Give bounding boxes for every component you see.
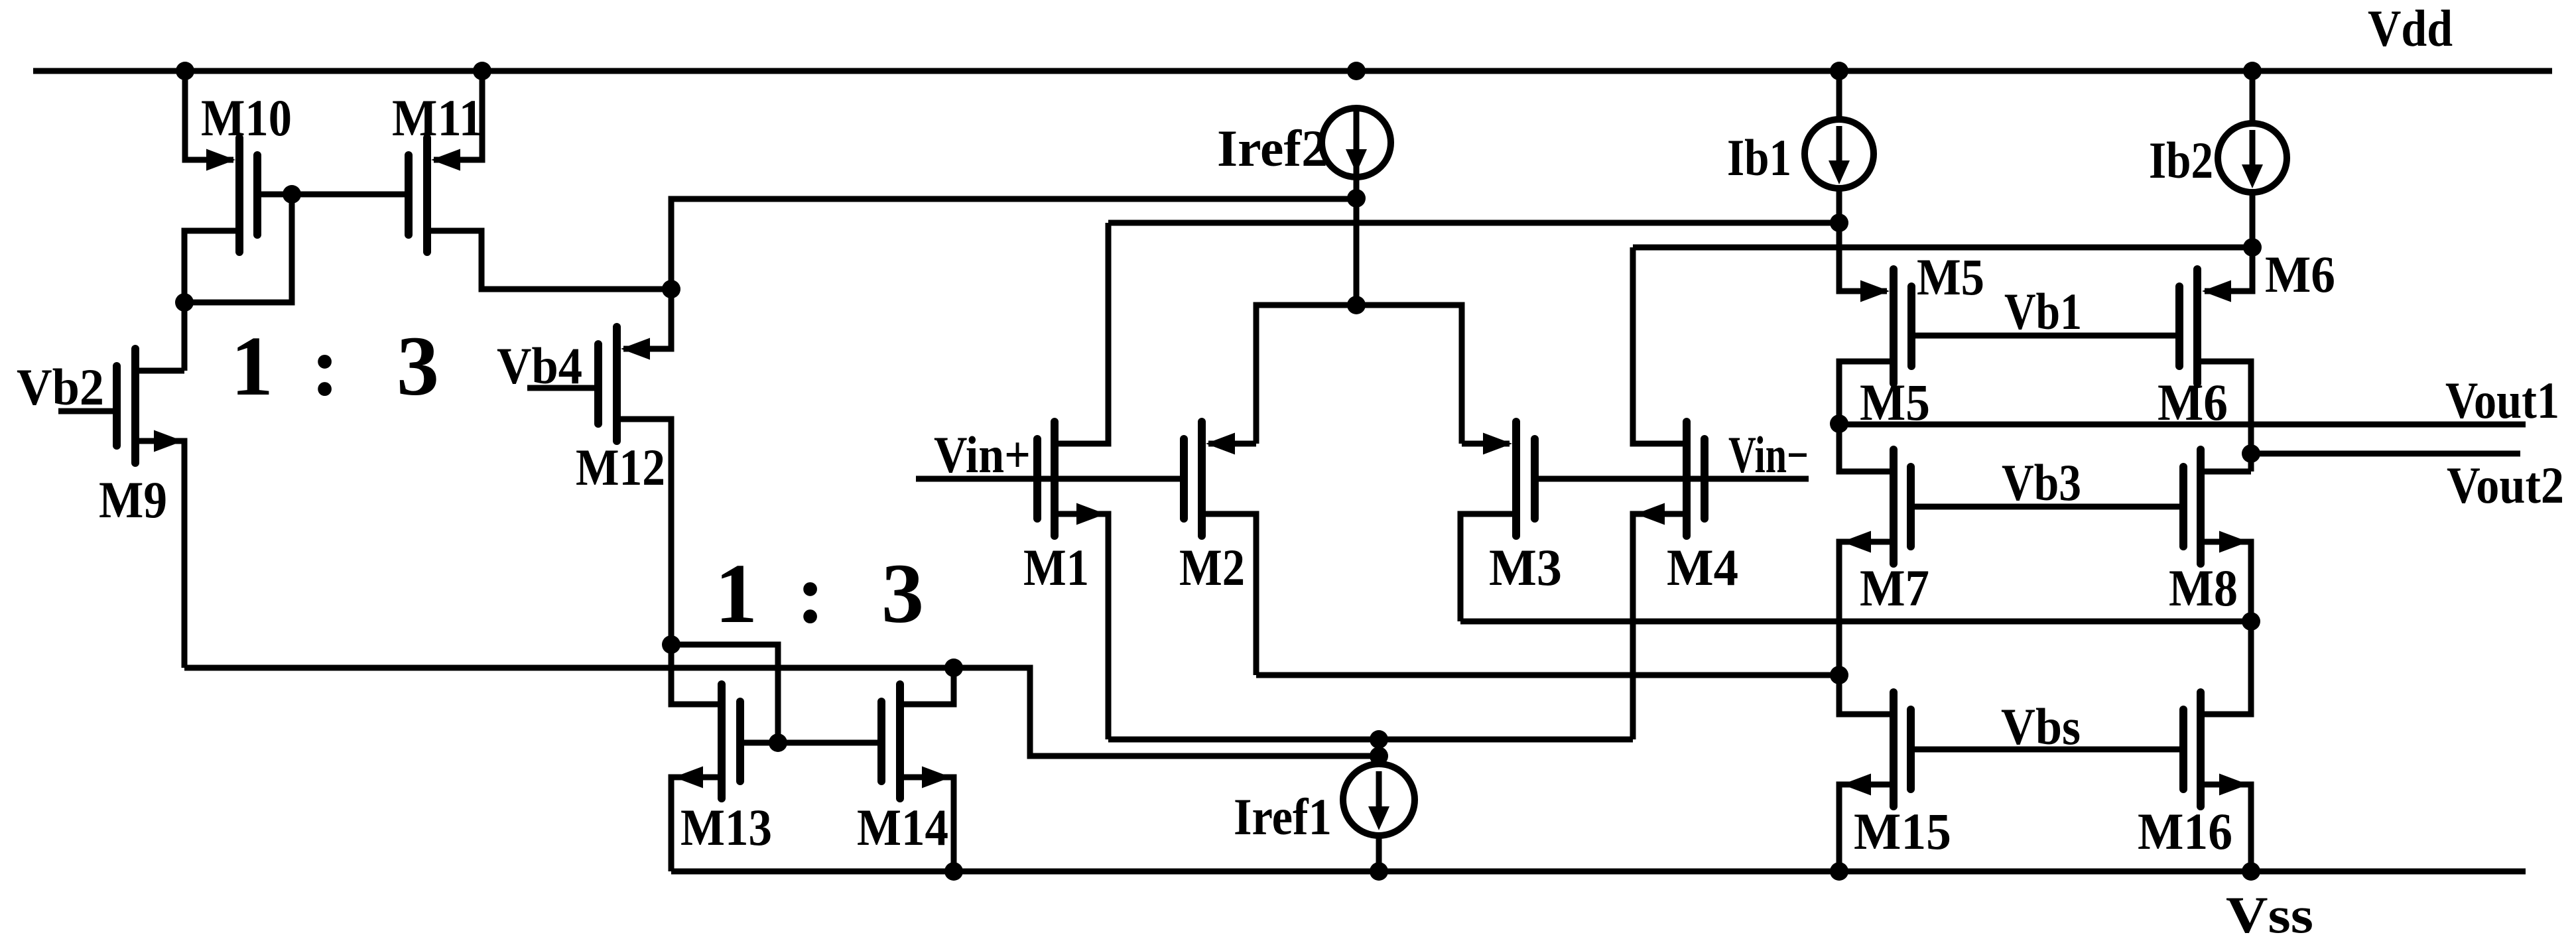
junction Vdd-M10: [176, 62, 194, 80]
svg-text:Vb3: Vb3: [2002, 454, 2081, 511]
wire M4 drain to Ib2 node: [1633, 245, 2252, 251]
wire Ib1 bottom stub: [1836, 187, 1842, 223]
wire tail to Iref2: [1354, 198, 1360, 305]
svg-text:M7: M7: [1860, 559, 1929, 617]
svg-text:M3: M3: [1489, 538, 1562, 596]
svg-text:M6: M6: [2265, 245, 2335, 303]
junction M15 source on Vss: [1830, 862, 1848, 881]
transistor M2 (input PMOS Vin+): [1184, 422, 1256, 675]
junction M2 drain / M7 source / M15 drain: [1830, 666, 1848, 684]
transistor M7 (NMOS cascode): [1839, 424, 1911, 675]
transistor M15 (NMOS current sink): [1839, 675, 1911, 871]
wire M2 source to tail: [1256, 305, 1356, 444]
transistor M14 (NMOS mirror): [881, 668, 954, 871]
transistor M5 (PMOS cascode): [1839, 223, 1911, 424]
junction Vdd-Ib1: [1830, 62, 1848, 80]
transistor M13 (NMOS diode): [671, 684, 881, 871]
svg-text:M13: M13: [680, 798, 772, 856]
svg-text:M4: M4: [1667, 538, 1738, 596]
svg-text:Ib2: Ib2: [2149, 131, 2213, 189]
transistor M3 (input PMOS Vin-): [1460, 422, 1535, 621]
junction M14 drain / M9 wire: [944, 659, 963, 677]
junction M11 drain / M12 source: [662, 280, 680, 298]
junction tail / Iref1: [1370, 730, 1388, 749]
wire M10 drain to M9 drain: [182, 302, 188, 371]
wire Ib1 top stub: [1836, 71, 1842, 121]
svg-text:Vout1: Vout1: [2445, 371, 2559, 429]
svg-text:M8: M8: [2169, 559, 2238, 617]
junction M12 drain / M13 drain node: [662, 635, 680, 654]
wire M9 drain bus to M14 node: [184, 665, 954, 671]
svg-text:M10: M10: [201, 89, 292, 147]
wire Ib2 bottom stub: [2250, 191, 2256, 247]
transistor M1 (input NMOS Vin+): [1037, 223, 1108, 739]
transistor M10 (PMOS): [184, 71, 292, 302]
wire M3 drain bus: [1460, 619, 2251, 625]
svg-text:Vb4: Vb4: [497, 337, 582, 395]
svg-text:M1: M1: [1023, 538, 1089, 596]
current source Ib2: [2218, 123, 2287, 192]
label ratio 1 : 3 (bottom mirror): [715, 546, 924, 641]
svg-text:Iref2: Iref2: [1217, 119, 1328, 177]
wire M1/M4 source tail: [1108, 737, 1633, 743]
svg-text:Vbs: Vbs: [2001, 698, 2081, 755]
svg-text:M12: M12: [576, 438, 665, 496]
junction M10 drain node: [175, 293, 194, 312]
wire Vb1 gate line: [1915, 333, 2175, 339]
wire M3 source to tail: [1356, 305, 1462, 444]
wire M14 node to Iref1 top: [954, 668, 1379, 756]
junction M16 source on Vss: [2242, 862, 2260, 881]
junction Vdd-Ib2: [2243, 62, 2262, 80]
wire Vout1 output: [1839, 422, 2526, 428]
wire Vdd rail: [33, 68, 2552, 74]
junction M3 drain / M8 source / M16 drain: [2242, 612, 2260, 631]
label ratio 1 : 3 (top mirror): [231, 319, 439, 413]
svg-text:M11: M11: [392, 89, 483, 147]
junction mirror wire / Iref1: [1370, 747, 1388, 765]
svg-text:M2: M2: [1179, 538, 1245, 596]
junction Vout1 node: [1830, 414, 1848, 433]
junction Iref2 output / M12 bias wire: [1347, 189, 1366, 208]
wire Vin- input: [1535, 476, 1809, 482]
transistor M16 (NMOS current sink): [2183, 621, 2251, 871]
svg-text::: :: [311, 319, 340, 413]
svg-text:Iref1: Iref1: [1234, 788, 1332, 846]
transistor M12 (PMOS cascode): [527, 289, 671, 645]
svg-text:1: 1: [715, 546, 757, 641]
transistor M4 (input NMOS Vin-): [1633, 247, 1705, 739]
svg-text:Vb1: Vb1: [2004, 282, 2082, 340]
transistor M8 (NMOS cascode): [2183, 450, 2251, 621]
wire Ib2 top stub: [2250, 71, 2256, 125]
svg-text:Vb2: Vb2: [17, 358, 104, 416]
svg-text:3: 3: [881, 546, 924, 641]
svg-text::: :: [797, 546, 825, 641]
current source Iref1: [1343, 764, 1415, 836]
wire Vout2 output: [2251, 451, 2520, 457]
junction Vout2 node: [2242, 444, 2260, 463]
svg-text:Vss: Vss: [2226, 886, 2313, 941]
junction M10/M11 gates: [283, 185, 301, 204]
wire M12 node to Iref2 output: [671, 199, 1356, 289]
wire Vb3 gate line: [1915, 504, 2179, 510]
svg-text:M5: M5: [1917, 248, 1984, 306]
wire Vss rail: [671, 869, 2526, 875]
svg-text:Vin−: Vin−: [1728, 426, 1809, 483]
svg-text:Vout2: Vout2: [2447, 456, 2564, 514]
svg-text:Ib1: Ib1: [1727, 129, 1791, 186]
junction Ib2 / M4 drain / M6 source: [2243, 238, 2262, 257]
junction Ib1 / M1 drain / M5 source: [1830, 214, 1848, 232]
svg-text:M16: M16: [2138, 802, 2232, 860]
junction M14 source on Vss: [944, 862, 963, 881]
svg-text:M14: M14: [857, 798, 948, 856]
wire Vbs gate line: [1915, 747, 2179, 753]
junction Vdd-M11: [473, 62, 491, 80]
transistor M9 (NMOS cascode): [58, 349, 184, 668]
wire M10/M11 gate to drain tie: [184, 194, 292, 302]
wire M13 drain: [671, 645, 722, 704]
svg-text:Vin+: Vin+: [934, 426, 1031, 483]
wire Iref2 stubs: [1354, 108, 1360, 198]
junction M2/M3 source tail: [1347, 296, 1366, 314]
junction Iref1 on Vss: [1370, 862, 1388, 881]
wire M13 drain-gate tie: [671, 645, 778, 743]
wire Iref1 bottom stub: [1376, 834, 1382, 871]
wire M2 drain bus: [1256, 672, 1839, 678]
wire Iref1 top stub: [1376, 739, 1382, 767]
svg-text:M15: M15: [1854, 802, 1951, 860]
junction Vdd-Iref2: [1347, 62, 1366, 80]
current source Ib1: [1805, 119, 1874, 188]
transistor M6 (PMOS cascode): [2179, 247, 2252, 471]
wire Vin+ input: [916, 476, 1180, 482]
svg-text:M9: M9: [99, 471, 167, 529]
current source Iref2: [1322, 108, 1391, 177]
wire M1 drain to Ib1 node: [1108, 220, 1839, 226]
svg-text:3: 3: [397, 319, 439, 413]
junction M13/M14 gate tie: [769, 733, 787, 752]
svg-text:1: 1: [231, 319, 273, 413]
transistor M11 (PMOS): [292, 71, 671, 289]
svg-text:Vdd: Vdd: [2368, 0, 2453, 57]
